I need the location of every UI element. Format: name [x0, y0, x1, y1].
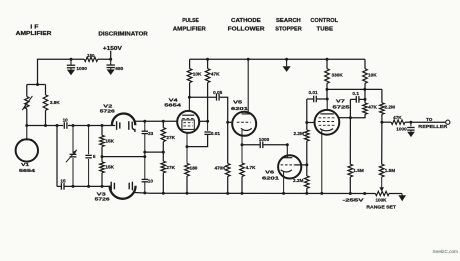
- resistor R 330K: [326, 59, 328, 68]
- svg-text:1.5M: 1.5M: [353, 168, 364, 173]
- svg-text:15: 15: [60, 178, 66, 183]
- wire V6 grid to divider: [295, 164, 307, 166]
- resistor R 27K upper: [162, 121, 164, 127]
- tube V7 5725: [326, 99, 328, 110]
- svg-text:V7: V7: [336, 98, 345, 104]
- svg-text:2.2M: 2.2M: [385, 104, 396, 109]
- svg-text:AMPLIFIER: AMPLIFIER: [16, 31, 52, 37]
- svg-text:5654: 5654: [19, 168, 35, 174]
- node screen bus junction: [363, 88, 366, 91]
- tube V3 right diode: [128, 183, 130, 190]
- node +150V junction: [109, 58, 112, 61]
- resistor R 1.5M right: [381, 122, 383, 164]
- wire V2 to V4 grid: [135, 120, 177, 122]
- tube V2 left diode plates: [116, 121, 118, 130]
- svg-text:10K: 10K: [193, 72, 202, 77]
- capacitor 0.05uF: [216, 94, 218, 101]
- svg-text:10: 10: [63, 117, 69, 122]
- wire V5 grid column: [227, 122, 229, 163]
- capacitor 5pF: [88, 126, 90, 155]
- wire to repeller terminal: [411, 121, 446, 123]
- wire V5 grid lead: [228, 121, 233, 123]
- wire down to V3 line: [56, 126, 58, 187]
- capacitor 10pF lower: [142, 178, 148, 180]
- wire divider column top: [306, 99, 308, 130]
- svg-text:10: 10: [148, 179, 154, 184]
- resistor R 4.7K: [240, 163, 245, 177]
- node bottom bus junctions: [143, 191, 146, 194]
- svg-text:15K: 15K: [105, 139, 114, 144]
- svg-text:0.1: 0.1: [352, 91, 359, 96]
- tube V2 right diode cathode: [128, 121, 130, 130]
- svg-text:SeekIC.com: SeekIC.com: [432, 249, 458, 254]
- svg-text:CONTROL: CONTROL: [310, 18, 339, 24]
- wire to +150V node: [98, 58, 111, 60]
- resistor R 1.5M left: [349, 118, 351, 165]
- wire main bus left: [27, 125, 63, 127]
- node V4 screen junction: [206, 120, 209, 123]
- variable resistor AGC: [26, 85, 28, 97]
- svg-text:0.01: 0.01: [308, 90, 318, 95]
- svg-text:V1: V1: [21, 162, 29, 168]
- capacitor 680pF: [110, 59, 112, 65]
- svg-text:180: 180: [190, 166, 198, 171]
- wire bottom bus: [134, 192, 150, 195]
- capacitor 10pF series: [63, 122, 65, 129]
- node V6 grid junction: [305, 163, 308, 166]
- resistor R 47K screen2: [363, 103, 368, 114]
- node V7 grid tap: [305, 121, 308, 124]
- node V5 cathode junction: [241, 143, 244, 146]
- resistor R 2.2M output: [381, 89, 383, 102]
- node rail junctions: [206, 58, 209, 61]
- svg-text:2.2M: 2.2M: [293, 178, 304, 183]
- tube V6 6201: [286, 145, 288, 158]
- svg-text:6201: 6201: [231, 106, 249, 112]
- svg-text:1000: 1000: [76, 66, 87, 71]
- svg-text:330K: 330K: [332, 73, 344, 78]
- svg-text:V3: V3: [97, 192, 106, 198]
- resistor R 180: [185, 163, 190, 176]
- node bus junctions: [25, 124, 28, 127]
- svg-text:1.5M: 1.5M: [385, 168, 396, 173]
- wire 1000pF line b: [263, 144, 287, 146]
- svg-text:5: 5: [93, 154, 96, 159]
- node output junction: [409, 121, 412, 124]
- resistor R 3.9K: [45, 85, 47, 95]
- wire V5 cathode lead: [241, 130, 243, 163]
- node grid-split junction: [36, 83, 39, 86]
- resistor R 2.2M upper: [305, 130, 310, 141]
- svg-text:AMPLIFIER: AMPLIFIER: [173, 27, 206, 33]
- wire V7 screen lead: [338, 117, 350, 119]
- capacitor 1000pF coupling: [259, 142, 261, 149]
- tube V3 5726 envelope: [110, 186, 136, 199]
- ground below output cap: [410, 130, 412, 132]
- svg-text:470K: 470K: [214, 166, 226, 171]
- resistor R 47K output: [382, 121, 391, 123]
- svg-text:2.2M: 2.2M: [293, 131, 304, 136]
- svg-text:0.05: 0.05: [213, 90, 223, 95]
- wire 0.01 line V7 b: [317, 98, 327, 100]
- ground below 680pF: [110, 68, 112, 70]
- variable capacitor trimmer: [72, 126, 74, 154]
- svg-text:3.9K: 3.9K: [50, 100, 61, 105]
- svg-text:15K: 15K: [105, 165, 114, 170]
- svg-text:4.7K: 4.7K: [246, 165, 257, 170]
- capacitor 0.1uF: [355, 96, 357, 103]
- wire grid split: [27, 84, 46, 86]
- svg-text:TO: TO: [426, 117, 433, 122]
- svg-text:5726: 5726: [95, 197, 110, 203]
- wire screen bus: [327, 88, 382, 90]
- svg-text:STOPPER: STOPPER: [275, 27, 302, 33]
- svg-text:-255V: -255V: [343, 198, 366, 203]
- svg-text:DISCRIMINATOR: DISCRIMINATOR: [98, 31, 148, 37]
- tube V2 5726 envelope: [112, 113, 135, 125]
- resistor R 27K lower: [162, 152, 164, 161]
- wire V7 cathode lead: [321, 130, 323, 193]
- svg-text:1000: 1000: [259, 137, 270, 142]
- wire V7 grid lead: [307, 122, 315, 124]
- resistor R 15K upper: [101, 126, 103, 136]
- tube V3 left diode: [110, 182, 112, 191]
- wire 0.1 line: [350, 98, 356, 100]
- node V7 plate junction: [326, 98, 329, 101]
- svg-text:1000: 1000: [396, 126, 407, 131]
- wire V4 plate lead: [188, 97, 190, 111]
- svg-text:CATHODE: CATHODE: [231, 18, 261, 24]
- svg-text:SEARCH: SEARCH: [276, 18, 301, 24]
- node output divider junction: [380, 121, 383, 124]
- svg-text:REPELLER: REPELLER: [418, 124, 448, 129]
- capacitor 0.01uF V7: [313, 96, 315, 103]
- capacitor 0.01uF V4: [207, 121, 209, 131]
- resistor R 470K: [225, 163, 230, 176]
- wire 33 column to 27K mid: [145, 151, 164, 153]
- svg-text:150: 150: [87, 53, 95, 58]
- svg-text:47K: 47K: [393, 115, 402, 120]
- svg-text:I F: I F: [30, 24, 38, 30]
- tube V4 5654: [177, 111, 199, 133]
- wire 15K mid to 33 column: [102, 156, 145, 158]
- svg-text:27K: 27K: [166, 135, 175, 140]
- capacitor 15pF: [60, 183, 62, 190]
- capacitor 1000pF output: [410, 122, 412, 126]
- wire +150V rail: [190, 58, 365, 60]
- wire V4 screen lead: [199, 120, 207, 122]
- potentiometer 100K RANGE SET: [375, 191, 389, 195]
- svg-text:5726: 5726: [100, 108, 115, 114]
- resistor R 47K screen: [207, 59, 209, 68]
- svg-text:RANGE SET: RANGE SET: [366, 204, 396, 209]
- node 330K bottom junction: [326, 88, 329, 91]
- svg-text:V5: V5: [233, 100, 242, 106]
- ground arrow on rail: [286, 59, 288, 66]
- wire V4 cathode: [186, 133, 188, 164]
- wire V5 plate lead: [247, 59, 249, 114]
- node V5 grid junction: [226, 121, 229, 124]
- node 10K bottom junction: [364, 98, 367, 101]
- svg-text:100K: 100K: [376, 197, 388, 202]
- svg-text:33: 33: [148, 131, 154, 136]
- node V7 screen junction: [349, 116, 352, 119]
- tube V1 5654: [26, 126, 28, 140]
- svg-text:47K: 47K: [211, 72, 220, 77]
- svg-text:V6: V6: [265, 170, 274, 176]
- node 15K midpoint: [101, 155, 104, 158]
- wire V6 cathode lead: [283, 172, 285, 194]
- wire 0.01 line V7: [307, 98, 313, 100]
- resistor R 15K lower: [101, 157, 103, 162]
- wire 0.1 corner down: [349, 99, 351, 117]
- node 27K junction: [162, 120, 165, 123]
- terminal TO REPELLER: [446, 120, 450, 124]
- svg-text:TUBE: TUBE: [317, 27, 334, 33]
- wire plate feed corner: [38, 59, 85, 84]
- node junction 1000pF: [70, 58, 73, 61]
- resistor R 2.2M lower: [306, 165, 308, 176]
- svg-text:10K: 10K: [368, 72, 377, 77]
- wire 0.1 line b: [359, 98, 365, 100]
- svg-text:+150V: +150V: [103, 46, 123, 52]
- svg-text:5725: 5725: [333, 105, 351, 111]
- node V3 left junctions: [72, 185, 75, 188]
- wire V3 left lead: [57, 185, 61, 187]
- resistor 150 ohm: [84, 57, 97, 61]
- svg-text:47K: 47K: [368, 104, 377, 109]
- resistor R 10K plate: [189, 59, 191, 68]
- svg-text:PULSE: PULSE: [182, 18, 199, 24]
- wire 0.05 line: [189, 96, 216, 98]
- svg-text:FOLLOWER: FOLLOWER: [228, 27, 265, 33]
- svg-text:0.01: 0.01: [211, 131, 221, 136]
- wire 0.05 line b: [220, 97, 228, 122]
- svg-text:6201: 6201: [262, 176, 280, 182]
- wire 1000pF line: [242, 144, 260, 146]
- svg-text:5654: 5654: [164, 102, 181, 108]
- potentiometer wiper arrow: [381, 177, 383, 188]
- node 33pF junction: [143, 120, 146, 123]
- capacitor 1000pF discriminator: [70, 59, 72, 65]
- svg-text:27K: 27K: [166, 165, 175, 170]
- resistor R 10K control: [364, 59, 366, 68]
- wire V3 left lead b: [64, 185, 110, 187]
- ground at range set: [398, 195, 406, 201]
- tube V5 6201: [232, 112, 256, 136]
- svg-text:680: 680: [115, 66, 123, 71]
- ground below 1000pF: [70, 68, 72, 70]
- capacitor 33pF: [144, 121, 146, 131]
- node V4 plate junction: [188, 96, 191, 99]
- wire main bus right: [68, 125, 115, 127]
- node V6 plate junction: [286, 143, 289, 146]
